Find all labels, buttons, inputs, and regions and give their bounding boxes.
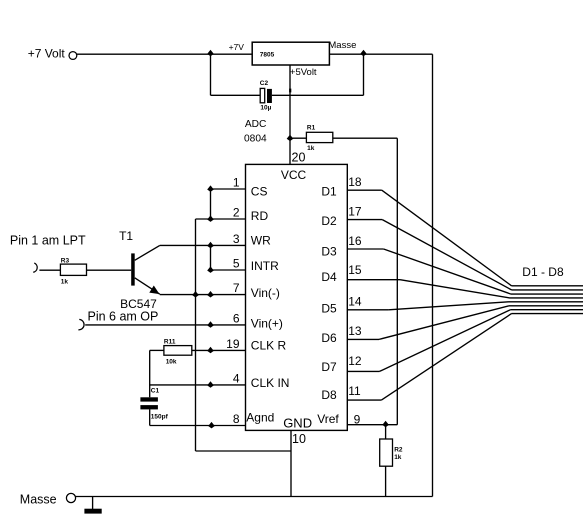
ground bar xyxy=(84,509,101,514)
svg-text:17: 17 xyxy=(348,204,362,218)
svg-text:Pin 1 am LPT: Pin 1 am LPT xyxy=(10,234,86,248)
wire D6 pin stub xyxy=(347,338,379,340)
wire D8 pin stub xyxy=(347,399,381,401)
wire D7 pin stub xyxy=(347,370,379,372)
svg-text:5: 5 xyxy=(233,257,240,271)
wire D3 diagonal xyxy=(384,249,511,294)
wire Vref pin 9 xyxy=(347,424,397,426)
wire R1 left lead xyxy=(290,137,306,139)
transistor Q1 T1 base bar xyxy=(131,253,135,285)
svg-text:R11: R11 xyxy=(164,338,176,345)
svg-text:VCC: VCC xyxy=(281,168,307,182)
svg-text:1k: 1k xyxy=(394,454,402,461)
wire D3 bus line xyxy=(511,293,583,295)
wire GND pin 10 xyxy=(290,430,292,496)
svg-text:9: 9 xyxy=(354,412,361,426)
wire Agnd pin 8 xyxy=(150,425,246,427)
svg-text:WR: WR xyxy=(251,233,271,247)
junction CLK R node xyxy=(207,347,214,354)
wire D1 bus line xyxy=(512,285,583,287)
wire Vin+ pin 6 xyxy=(85,324,245,326)
wire +7V supply xyxy=(77,53,252,55)
svg-text:D7: D7 xyxy=(321,360,337,374)
wire C2 right lead xyxy=(272,94,364,96)
wire D8 diagonal xyxy=(381,314,511,401)
connector Masse terminal xyxy=(66,493,75,502)
wire D8 bus line xyxy=(512,313,583,315)
wire D2 bus line xyxy=(512,289,583,291)
svg-text:Vin(-): Vin(-) xyxy=(251,286,280,300)
svg-text:Vref: Vref xyxy=(317,412,339,426)
svg-text:D6: D6 xyxy=(321,331,337,345)
svg-text:16: 16 xyxy=(348,234,362,248)
svg-text:D2: D2 xyxy=(321,214,337,228)
wire D6 bus line xyxy=(509,305,583,307)
svg-text:CLK IN: CLK IN xyxy=(251,376,290,390)
wire WR to INTR xyxy=(210,245,212,270)
wire R1 to Vref xyxy=(396,138,398,425)
junction Masse/C2 xyxy=(360,50,367,57)
svg-text:+5Volt: +5Volt xyxy=(290,67,317,78)
junction CLK IN node xyxy=(207,381,214,388)
resistor R2 xyxy=(380,439,393,466)
svg-text:18: 18 xyxy=(348,175,362,189)
junction +7V/C2 xyxy=(207,50,214,57)
capacitor C2 left plate xyxy=(260,88,265,102)
wire +5V to VCC pin 20 xyxy=(289,65,291,164)
svg-text:11: 11 xyxy=(348,384,361,398)
wire CS pin 1 xyxy=(211,188,246,190)
voltage regulator 7805 xyxy=(252,42,329,65)
svg-text:C1: C1 xyxy=(151,387,160,394)
wire Masse top xyxy=(329,53,432,55)
junction WR node xyxy=(207,242,214,249)
transistor T1 collector line xyxy=(135,245,160,260)
wire C2 left lead xyxy=(211,94,261,96)
wire C2 to Masse xyxy=(363,53,365,95)
svg-text:+7 Volt: +7 Volt xyxy=(28,46,66,60)
wire R11 left lead xyxy=(150,349,164,351)
wire D7 bus line xyxy=(511,309,583,311)
wire R3 to T1 base xyxy=(87,269,132,271)
svg-text:Masse: Masse xyxy=(328,40,356,51)
svg-text:Pin 6 am OP: Pin 6 am OP xyxy=(88,310,159,324)
resistor R11 xyxy=(164,346,192,356)
svg-text:D8: D8 xyxy=(321,388,337,402)
svg-text:7: 7 xyxy=(233,281,240,295)
junction RD node xyxy=(207,215,214,222)
wire Vref to R2 xyxy=(385,425,387,439)
svg-text:2: 2 xyxy=(233,206,240,220)
svg-text:8: 8 xyxy=(233,412,240,426)
connector Pin 1 am LPT arc xyxy=(33,263,37,272)
svg-text:150pf: 150pf xyxy=(151,413,169,420)
transistor T1 emitter line xyxy=(135,278,160,294)
wire INTR pin 5 xyxy=(211,269,246,271)
wire CLK IN pin 4 xyxy=(150,384,246,386)
svg-text:10k: 10k xyxy=(166,358,177,365)
junction Vin+ node xyxy=(207,321,214,328)
wire LPT to R3 xyxy=(39,269,60,271)
wire D6 diagonal xyxy=(379,306,509,340)
wire D5 diagonal xyxy=(389,302,509,310)
wire D5 pin stub xyxy=(347,309,388,311)
wire WR pin 3 xyxy=(160,244,246,246)
svg-text:15: 15 xyxy=(348,263,362,277)
svg-text:12: 12 xyxy=(348,354,362,368)
wire Masse vertical xyxy=(432,54,434,496)
resistor R1 xyxy=(306,132,332,142)
svg-text:D1: D1 xyxy=(321,184,337,198)
junction Agnd node xyxy=(208,422,215,429)
svg-text:C2: C2 xyxy=(260,80,269,87)
wire C1 to Agnd xyxy=(149,409,151,425)
op-amp U1 ADC0804 IC body xyxy=(246,164,348,430)
svg-text:4: 4 xyxy=(233,371,240,385)
wire D2 diagonal xyxy=(382,220,511,290)
junction CS node xyxy=(207,185,214,192)
svg-text:D3: D3 xyxy=(321,245,337,259)
svg-text:1k: 1k xyxy=(61,278,69,285)
wire R2 to ground rail xyxy=(385,466,387,496)
wire D3 pin stub xyxy=(347,248,383,250)
svg-text:0804: 0804 xyxy=(244,133,267,144)
svg-text:6: 6 xyxy=(233,311,240,325)
wire D4 pin stub xyxy=(347,279,400,281)
junction INTR node xyxy=(207,266,214,273)
svg-text:D4: D4 xyxy=(321,270,337,284)
wire ground symbol stub xyxy=(92,497,94,510)
svg-text:D5: D5 xyxy=(321,302,337,316)
junction VCC/R1 xyxy=(287,135,294,142)
wire D4 diagonal xyxy=(400,280,510,298)
svg-text:R3: R3 xyxy=(61,258,70,265)
wire ground to pin 10 xyxy=(196,450,292,452)
transistor T1 emitter arrow xyxy=(149,286,159,295)
svg-text:D1 - D8: D1 - D8 xyxy=(522,265,564,279)
connector +7 Volt terminal xyxy=(69,52,77,60)
svg-text:13: 13 xyxy=(348,324,362,338)
svg-text:RD: RD xyxy=(251,209,269,223)
svg-text:3: 3 xyxy=(233,232,240,246)
svg-text:ADC: ADC xyxy=(245,119,267,130)
svg-text:Agnd: Agnd xyxy=(246,411,274,425)
svg-text:20: 20 xyxy=(292,151,306,165)
svg-text:1k: 1k xyxy=(307,145,315,152)
wire ground bus vertical xyxy=(195,219,197,451)
wire +7V to C2 xyxy=(210,54,212,95)
resistor R3 xyxy=(60,264,86,275)
wire D1 diagonal xyxy=(382,190,512,286)
wire CS to RD xyxy=(210,189,212,219)
wire Vin- pin 7 xyxy=(160,294,246,296)
svg-text:19: 19 xyxy=(226,337,240,351)
wire D5 bus line xyxy=(509,301,583,303)
junction Vin- ground xyxy=(192,291,199,298)
wire R1 right lead xyxy=(333,137,398,139)
capacitor C2 right plate xyxy=(267,89,272,103)
capacitor C1 top plate xyxy=(140,397,158,401)
svg-text:1: 1 xyxy=(233,176,240,190)
wire RD pin 2 xyxy=(196,218,246,220)
wire D4 bus line xyxy=(510,297,583,299)
svg-text:10: 10 xyxy=(292,432,306,446)
capacitor C1 bottom plate xyxy=(140,405,158,409)
svg-text:10µ: 10µ xyxy=(260,105,271,112)
connector Pin 6 am OP arc xyxy=(78,319,84,329)
svg-text:14: 14 xyxy=(348,294,362,308)
svg-text:INTR: INTR xyxy=(251,259,279,273)
svg-text:R2: R2 xyxy=(394,446,403,453)
svg-text:CLK R: CLK R xyxy=(251,339,287,353)
svg-text:CS: CS xyxy=(251,185,268,199)
svg-text:GND: GND xyxy=(283,416,312,431)
junction Vin- node xyxy=(207,291,214,298)
svg-text:7805: 7805 xyxy=(260,51,275,58)
wire ground rail xyxy=(76,496,433,498)
svg-text:Masse: Masse xyxy=(20,492,57,506)
wire CLK R pin 19 xyxy=(192,349,246,351)
svg-text:T1: T1 xyxy=(119,229,133,243)
svg-text:R1: R1 xyxy=(307,124,316,131)
wire R11 to C1 xyxy=(149,350,151,397)
svg-text:Vin(+): Vin(+) xyxy=(251,316,283,330)
wire D2 pin stub xyxy=(347,219,382,221)
junction Vref/R2 xyxy=(382,421,389,428)
wire D1 pin stub xyxy=(347,189,382,191)
svg-text:+7V: +7V xyxy=(229,42,245,52)
wire VCC jog mark xyxy=(289,89,291,93)
wire D7 diagonal xyxy=(380,310,511,372)
